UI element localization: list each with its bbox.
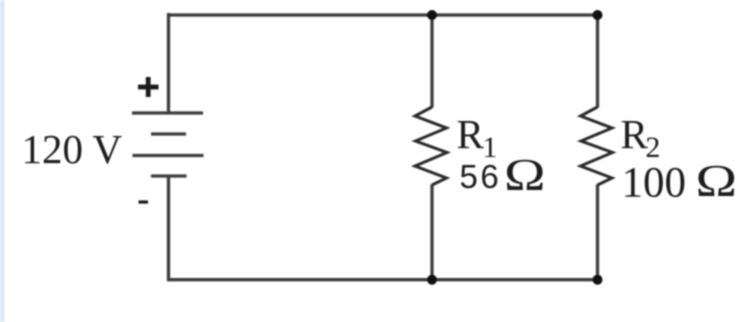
resistor R2 zigzag bbox=[581, 107, 613, 185]
wire left vertical lower (battery - lead) bbox=[167, 176, 170, 281]
junction node bottom R1 bbox=[427, 275, 437, 285]
battery V1 plate long lower bbox=[133, 154, 204, 157]
wire R2 branch upper bbox=[596, 15, 599, 108]
wire left vertical upper (battery + lead) bbox=[167, 13, 170, 113]
battery V1 plate short bottom bbox=[151, 174, 187, 177]
svg-text:R2: R2 bbox=[621, 111, 661, 164]
wire top horizontal bbox=[167, 13, 599, 16]
svg-text:56: 56 bbox=[460, 158, 502, 195]
wire R2 branch lower bbox=[596, 185, 599, 280]
battery minus sign bbox=[139, 200, 149, 203]
wire R1 branch lower bbox=[430, 185, 433, 280]
battery plus sign bbox=[138, 85, 159, 90]
junction node top R2 bbox=[593, 10, 603, 20]
left page border stripe bbox=[0, 0, 5, 322]
resistor R1 zigzag bbox=[415, 107, 447, 185]
svg-text:R1: R1 bbox=[457, 111, 498, 164]
svg-text:Ω: Ω bbox=[696, 156, 738, 207]
wire R1 branch upper bbox=[430, 15, 433, 108]
battery V1 plate long top bbox=[132, 111, 203, 114]
junction node bottom R2 bbox=[593, 275, 603, 285]
wire bottom horizontal bbox=[167, 278, 599, 281]
svg-text:Ω: Ω bbox=[504, 151, 546, 201]
svg-text:120 V: 120 V bbox=[22, 126, 123, 172]
battery V1 plate short upper bbox=[151, 132, 186, 135]
junction node top R1 bbox=[427, 10, 437, 20]
svg-text:100: 100 bbox=[622, 160, 687, 207]
